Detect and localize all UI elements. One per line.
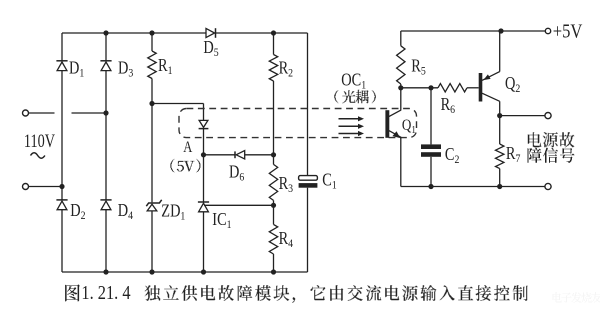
watermark (faint logo): [553, 292, 600, 303]
light arrow 3: [339, 133, 361, 135]
light arrow 2: [339, 125, 361, 127]
wire C1 column: [307, 33, 309, 176]
input terminal phase A: [23, 110, 29, 116]
diode D4: [100, 199, 111, 201]
svg-text:D3: D3: [118, 59, 134, 79]
wire second column (D3/D4 branch): [105, 33, 107, 61]
bottom output terminal: [545, 183, 551, 189]
svg-text:IC1: IC1: [212, 211, 231, 231]
svg-text:+5V: +5V: [553, 20, 583, 42]
wire C2 column: [430, 88, 432, 145]
svg-text:Q1: Q1: [402, 117, 416, 136]
junction R6 / C2: [428, 85, 433, 90]
junction divider tap R3/R4: [271, 203, 276, 208]
svg-text:R4: R4: [279, 230, 294, 250]
wire top rail left segment: [62, 32, 206, 34]
wire left column (D1/D2 branch): [61, 33, 63, 61]
resistor R4: [269, 224, 277, 254]
transistor Q2 (PNP): [479, 73, 483, 102]
junction top rail / D3: [103, 30, 108, 35]
resistor R2: [269, 55, 277, 82]
svg-text:D1: D1: [69, 59, 84, 79]
svg-text:D5: D5: [203, 39, 219, 59]
junction Q2 collector / output: [497, 113, 502, 118]
wire R1/ZD1 column: [151, 33, 153, 51]
diode D6: [234, 151, 236, 158]
wire R5 / Q1 column: [400, 31, 402, 46]
label (5V): [170, 159, 200, 173]
svg-text:OC1: OC1: [341, 71, 366, 91]
resistor R7: [496, 144, 504, 169]
caption text: [145, 285, 528, 303]
junction bottom rail / IC1: [201, 269, 206, 274]
diode D5: [206, 28, 215, 37]
svg-text:R6: R6: [441, 96, 456, 116]
capacitor C1 (electrolytic): [299, 176, 318, 181]
label power fail signal line2: [528, 148, 575, 163]
wire Q2 collector down: [499, 101, 501, 144]
zener diode ZD1: [146, 200, 161, 206]
input terminal phase B: [23, 184, 29, 190]
svg-text:C1: C1: [322, 171, 336, 191]
diode D3: [100, 60, 111, 62]
capacitor C2: [421, 144, 441, 149]
junction R1 bottom node: [149, 101, 154, 106]
wire right bottom rail: [401, 186, 545, 188]
svg-text:Q2: Q2: [505, 75, 520, 95]
output terminal: [545, 113, 551, 119]
junction bottom rail / ZD1: [149, 269, 154, 274]
junction bottom rail / R4: [271, 269, 276, 274]
wire LED / IC1 column: [203, 104, 205, 121]
svg-text:R7: R7: [506, 145, 521, 165]
svg-text:C2: C2: [445, 146, 459, 166]
wire R6 base line: [401, 87, 438, 89]
wire Q2 emitter to +5V: [499, 31, 501, 72]
junction R5 / R6 / Q1 collector: [398, 85, 403, 90]
label AC tilde: [31, 153, 45, 158]
label (guang ou): [334, 90, 376, 104]
node A junction: [201, 152, 206, 157]
phototransistor Q1: [385, 110, 389, 138]
resistor R3: [269, 164, 277, 200]
junction node A wire / R2-R3: [271, 152, 276, 157]
caption figure number: [65, 284, 80, 301]
shunt regulator IC1: [198, 201, 209, 203]
resistor R1: [148, 51, 156, 79]
wire phase A (hops over D1 column): [29, 112, 55, 114]
wire IC1 reference to divider: [204, 204, 274, 206]
svg-text:A: A: [183, 140, 192, 156]
svg-text:D6: D6: [229, 163, 245, 183]
svg-text:R2: R2: [279, 59, 293, 79]
junction top rail / Q2 emitter: [498, 28, 503, 33]
junction bottom rail / D4: [103, 269, 108, 274]
svg-text:D4: D4: [118, 202, 134, 222]
svg-text:R1: R1: [158, 57, 172, 77]
wire phase B: [29, 186, 63, 188]
junction R7 / bottom rail: [497, 184, 502, 189]
svg-text:1. 21. 4: 1. 21. 4: [81, 281, 130, 303]
svg-text:D2: D2: [70, 202, 85, 222]
junction top rail / R1: [149, 30, 154, 35]
resistor R5: [397, 46, 405, 84]
wire output: [500, 115, 545, 117]
junction phase A / D3-D4: [103, 110, 108, 115]
+5V terminal: [545, 28, 550, 33]
wire R1 node to LED column: [152, 103, 204, 105]
wire node A to R3 (through D6): [204, 154, 236, 156]
optocoupler LED (OC1 emitter diode): [199, 120, 208, 127]
svg-text:R3: R3: [279, 175, 294, 195]
label power fail signal line1: [528, 132, 575, 147]
svg-text:R5: R5: [411, 57, 426, 77]
wire R2/R3/R4 column: [273, 33, 275, 55]
junction phase B / D1-D2: [59, 184, 64, 189]
wire bottom rail: [62, 271, 308, 273]
diode D2: [56, 199, 67, 201]
junction C2 / bottom rail: [428, 184, 433, 189]
optocoupler OC1 dashed outline: [179, 109, 417, 138]
wire top rail right segment: [216, 32, 308, 34]
svg-text:110V: 110V: [24, 130, 55, 151]
wire +5V top rail: [401, 30, 545, 32]
svg-text:ZD1: ZD1: [161, 202, 185, 222]
diode D1: [56, 60, 67, 62]
light arrow 1: [339, 118, 361, 120]
resistor R6: [438, 84, 467, 92]
junction top rail / R2: [271, 30, 276, 35]
